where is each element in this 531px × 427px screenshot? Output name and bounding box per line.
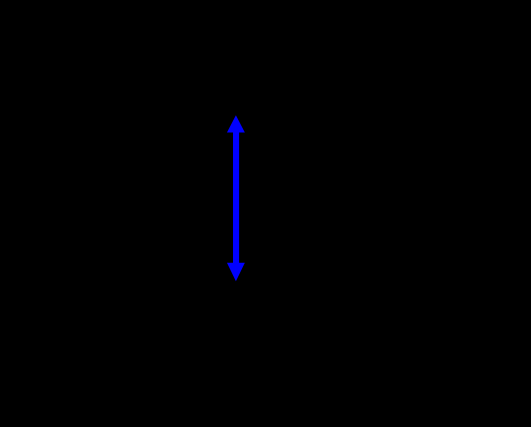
node A [233, 97, 239, 103]
node B [233, 327, 239, 333]
voltage source V1 [55, 100, 105, 330]
wire top rail [80, 99, 450, 101]
wire bottom rail [80, 329, 450, 331]
resistor R1 [442, 100, 458, 330]
voltage annotation arrow (blue, double-headed) [227, 115, 245, 281]
